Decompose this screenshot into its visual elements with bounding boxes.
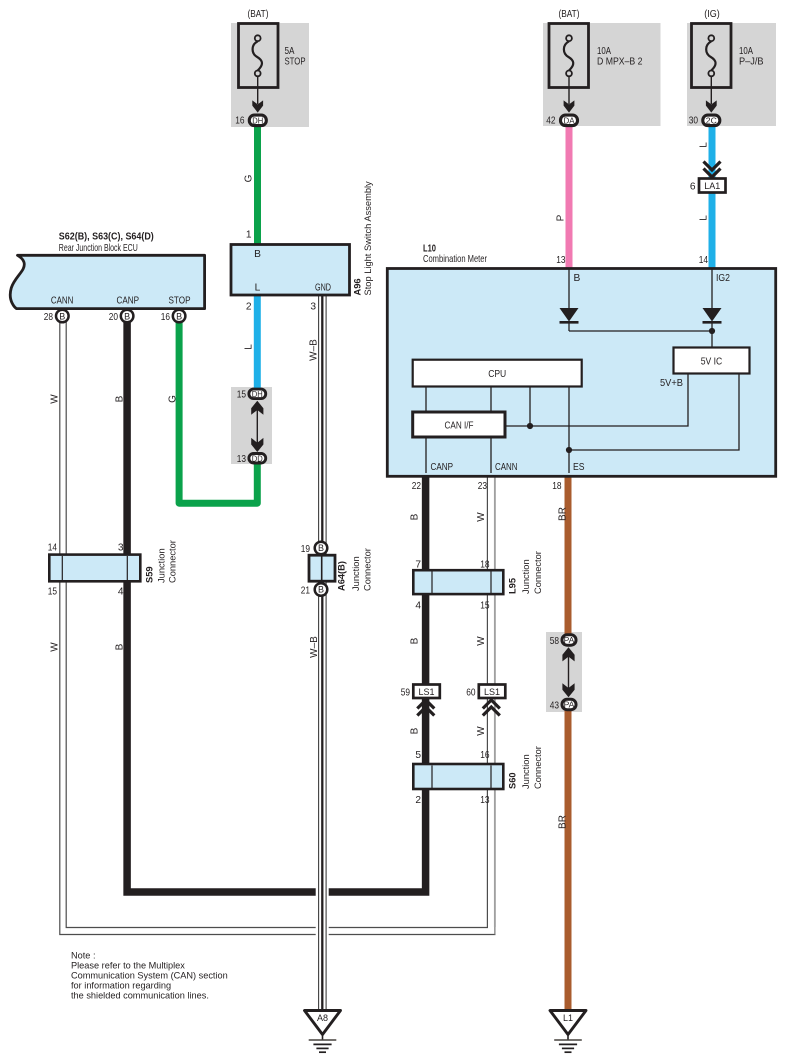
chevron marker above LA1: [704, 162, 721, 178]
ECU S62/S63/S64 Rear Junction Block ECU box: [10, 255, 204, 308]
svg-text:CANP: CANP: [431, 462, 454, 473]
chevron marker below 59 LS1: [417, 700, 434, 716]
lead from fuse F3 to connector 2C: [710, 77, 712, 105]
svg-text:Connector: Connector: [363, 548, 373, 591]
svg-text:28: 28: [44, 312, 54, 323]
svg-text:(BAT): (BAT): [248, 9, 269, 20]
svg-text:18: 18: [480, 560, 490, 571]
svg-text:Stop Light Switch Assembly: Stop Light Switch Assembly: [363, 181, 373, 296]
svg-text:43: 43: [550, 701, 560, 712]
svg-text:21: 21: [301, 586, 311, 597]
svg-text:13: 13: [556, 255, 566, 266]
svg-text:DH: DH: [252, 116, 263, 125]
svg-text:5V+B: 5V+B: [660, 378, 683, 389]
wire CAN I/F to CANN pin 23: [490, 437, 492, 473]
svg-text:(IG): (IG): [704, 9, 720, 20]
wire B CANP: ECU pin 20 down, across, up to meter pin 22: [127, 318, 426, 892]
fuse F1 5A STOP body: [239, 24, 279, 88]
svg-text:LA1: LA1: [704, 181, 720, 191]
wire W-B from A96 GND pin 3 to ground A8: left edge: [318, 294, 320, 1010]
svg-text:P: P: [556, 214, 567, 221]
svg-text:13: 13: [237, 454, 247, 465]
wire G from ECU STOP pin 16 down, right, up to DD: [179, 318, 257, 503]
svg-text:Connector: Connector: [168, 540, 178, 583]
svg-text:1: 1: [246, 230, 252, 241]
svg-text:30: 30: [689, 116, 699, 127]
svg-text:B: B: [410, 513, 421, 520]
svg-text:10A: 10A: [739, 46, 753, 57]
svg-text:Note :: Note :: [71, 951, 96, 961]
svg-text:D MPX–B 2: D MPX–B 2: [597, 56, 643, 67]
svg-text:14: 14: [48, 543, 58, 554]
fuse F2 element: [566, 35, 572, 41]
svg-text:5V IC: 5V IC: [701, 356, 723, 367]
gray panel of in-line connector PA/PA: [546, 632, 582, 712]
svg-text:DA: DA: [564, 116, 576, 125]
svg-text:W: W: [476, 512, 487, 522]
svg-text:20: 20: [109, 312, 119, 323]
wire W-B black stripe: [321, 294, 323, 1010]
chevron marker below 60 LS1: [483, 700, 500, 716]
svg-text:DD: DD: [252, 455, 263, 464]
svg-text:14: 14: [699, 255, 709, 266]
ground L1 triangle: [550, 1011, 586, 1035]
gray panel of STOP fuse block: [231, 23, 309, 127]
svg-text:2C: 2C: [706, 116, 717, 125]
svg-text:CANN: CANN: [495, 462, 518, 473]
shield wire W outer run: ECU pin 28 down, across bottom, up right side: [60, 320, 495, 935]
L10 Combination Meter box: [387, 269, 775, 477]
junction connector A64(B) box: [309, 555, 335, 581]
svg-text:DH: DH: [252, 390, 263, 399]
svg-text:P–J/B: P–J/B: [739, 56, 764, 67]
svg-text:Connector: Connector: [533, 746, 543, 789]
junction connector S60 box: [413, 764, 503, 789]
svg-text:W–B: W–B: [309, 339, 320, 361]
connector 15 DH oval: [249, 389, 266, 399]
fuse F3 10A P-J/B body: [692, 24, 732, 88]
svg-text:S62(B), S63(C), S64(D): S62(B), S63(C), S64(D): [59, 232, 154, 243]
gray panel of P-J/B fuse block: [687, 23, 776, 126]
svg-text:GND: GND: [315, 283, 331, 294]
svg-text:Communication System (CAN) sec: Communication System (CAN) section: [71, 971, 228, 981]
svg-text:B: B: [410, 637, 421, 644]
connector 59 LS1 box: [413, 685, 440, 699]
svg-text:BR: BR: [558, 815, 569, 829]
svg-text:7: 7: [415, 560, 421, 571]
svg-text:CAN I/F: CAN I/F: [445, 420, 474, 431]
wire CPU to CAN I/F leg 2: [490, 387, 492, 413]
junction connector A64(B) pin 21 B terminal: [315, 583, 328, 596]
wire BR from connector PA to ground L1: [565, 709, 572, 1010]
svg-text:LS1: LS1: [418, 687, 434, 697]
connector 43 PA oval: [562, 699, 576, 709]
svg-text:IG2: IG2: [716, 273, 730, 284]
wire CPU leg 4 to ES: [568, 387, 570, 474]
wire P from fuse DA to meter pin 13: [566, 124, 573, 269]
connector 6 LA1 box: [699, 179, 726, 193]
svg-text:W: W: [476, 726, 487, 736]
svg-text:S60: S60: [508, 772, 518, 789]
shield wire W right pale inner edge: [494, 476, 496, 927]
svg-text:CPU: CPU: [488, 369, 506, 380]
diode D1 (B feed): [560, 308, 579, 322]
wire ES node to 5V IC right pin: [569, 374, 739, 451]
lead from fuse F1 to connector DH: [257, 77, 259, 105]
svg-text:L: L: [244, 344, 255, 350]
svg-text:60: 60: [466, 688, 476, 699]
svg-text:59: 59: [401, 688, 411, 699]
fuse F1 element: [255, 35, 261, 41]
gray panel of in-line connector DH/DD: [231, 387, 272, 464]
svg-text:BR: BR: [558, 507, 569, 521]
svg-text:B: B: [124, 311, 130, 321]
svg-text:2: 2: [415, 795, 421, 806]
svg-text:2: 2: [246, 302, 252, 313]
svg-text:CANP: CANP: [117, 296, 140, 307]
svg-text:Junction: Junction: [521, 559, 531, 594]
ECU pin 20 B terminal: [121, 310, 134, 323]
svg-text:5: 5: [415, 750, 421, 761]
svg-text:6: 6: [690, 182, 696, 193]
meter internal lead from pin 14 to diode: [711, 269, 713, 309]
svg-text:G: G: [244, 174, 255, 182]
svg-text:CANN: CANN: [51, 296, 74, 307]
svg-text:Junction: Junction: [521, 754, 531, 789]
fuse F3 element: [708, 35, 714, 41]
svg-text:ES: ES: [573, 462, 585, 473]
junction connector A64(B) pin 19 B terminal: [315, 542, 328, 555]
svg-text:19: 19: [301, 544, 311, 555]
svg-text:Please refer to the Multiplex: Please refer to the Multiplex: [71, 961, 185, 971]
svg-text:18: 18: [552, 481, 562, 492]
junction node on 5V+B line: [527, 423, 533, 429]
wire L from fuse 2C to connector LA1: [709, 124, 716, 180]
junction connector S59 box: [49, 555, 140, 582]
connector 60 LS1 box: [479, 685, 506, 699]
wire BR from meter ES pin 18 to connector PA: [565, 474, 572, 635]
connector 13 DD oval: [249, 454, 266, 464]
svg-text:PA: PA: [564, 635, 575, 645]
wire W-B right edge: [325, 294, 327, 1010]
svg-text:(BAT): (BAT): [559, 9, 580, 20]
svg-text:15: 15: [237, 390, 247, 401]
svg-text:S59: S59: [145, 566, 155, 583]
svg-text:L95: L95: [508, 578, 518, 594]
svg-text:the shielded communication lin: the shielded communication lines.: [71, 991, 209, 1001]
wire CPU leg 3 to 5V+B line: [529, 387, 531, 427]
svg-text:W–B: W–B: [309, 636, 320, 658]
connector 42 DA oval: [561, 115, 578, 126]
in-line connector arrows DH-DD: [256, 406, 258, 447]
svg-text:B: B: [59, 311, 65, 321]
white halo where W-B wire crosses B wire and shield: [316, 884, 329, 940]
svg-text:58: 58: [550, 636, 560, 647]
wire CAN I/F to 5V IC (5V+B): [505, 374, 688, 427]
svg-text:B: B: [574, 273, 581, 284]
svg-text:A64(B): A64(B): [337, 561, 347, 591]
svg-text:16: 16: [161, 312, 171, 323]
svg-text:4: 4: [118, 587, 124, 598]
svg-text:L: L: [255, 283, 261, 294]
svg-text:13: 13: [480, 795, 490, 806]
junction connector L95 box: [413, 570, 503, 594]
svg-text:42: 42: [546, 116, 556, 127]
svg-text:for information regarding: for information regarding: [71, 981, 171, 991]
svg-text:4: 4: [415, 601, 421, 612]
svg-text:W: W: [50, 642, 61, 652]
gray panel of D MPX-B 2 fuse block: [543, 23, 661, 126]
svg-text:B: B: [115, 643, 126, 650]
svg-text:15: 15: [48, 587, 58, 598]
wire G from fuse DH to A96 pin 1: [254, 124, 261, 246]
svg-text:STOP: STOP: [169, 296, 191, 307]
diode D2 (IG2 feed): [703, 308, 722, 322]
ECU pin 28 B terminal: [56, 310, 69, 323]
svg-text:B: B: [115, 395, 126, 402]
ECU pin 16 B terminal: [173, 310, 186, 323]
connector 16 DH oval: [249, 115, 266, 126]
CAN I/F box U3: [413, 412, 505, 437]
in-line connector arrows PA-PA: [568, 652, 570, 692]
wire L from connector LA1 to meter pin 14: [709, 191, 716, 269]
svg-text:Connector: Connector: [533, 551, 543, 594]
fuse F2 10A D MPX-B 2 body: [549, 24, 589, 88]
svg-text:16: 16: [480, 750, 490, 761]
svg-text:23: 23: [478, 481, 488, 492]
svg-text:L10: L10: [423, 244, 436, 255]
svg-text:Combination Meter: Combination Meter: [423, 254, 487, 265]
svg-text:5A: 5A: [285, 46, 295, 57]
junction node on ES line: [566, 447, 572, 453]
svg-text:22: 22: [412, 481, 422, 492]
lead from fuse F2 to connector DA: [568, 77, 570, 105]
CPU box U1: [413, 360, 582, 387]
wire CAN I/F to CANP pin 22: [425, 437, 427, 473]
connector 30 2C oval: [703, 115, 720, 126]
svg-text:Junction: Junction: [351, 556, 361, 591]
svg-text:W: W: [476, 636, 487, 646]
svg-text:L: L: [699, 142, 710, 148]
A96 Stop Light Switch Assembly box: [231, 245, 350, 296]
svg-text:16: 16: [235, 116, 245, 127]
svg-text:B: B: [318, 543, 324, 553]
svg-text:Rear Junction Block ECU: Rear Junction Block ECU: [59, 243, 138, 254]
wire joining diode outputs: [569, 330, 712, 332]
connector 58 PA oval: [562, 635, 576, 645]
svg-text:3: 3: [310, 302, 316, 313]
svg-text:Junction: Junction: [157, 548, 167, 583]
svg-text:LS1: LS1: [484, 687, 500, 697]
svg-text:B: B: [410, 727, 421, 734]
junction node at diode outputs: [709, 328, 715, 334]
svg-text:W: W: [50, 394, 61, 404]
ground A8 triangle: [305, 1011, 341, 1035]
svg-text:B: B: [176, 311, 182, 321]
svg-text:A8: A8: [317, 1013, 328, 1023]
svg-text:STOP: STOP: [285, 56, 306, 67]
wire L from A96 pin 2 to connector DH: [254, 294, 261, 390]
svg-text:A96: A96: [353, 278, 363, 295]
svg-text:3: 3: [118, 543, 124, 554]
svg-text:PA: PA: [564, 700, 575, 710]
svg-text:B: B: [318, 585, 324, 595]
svg-text:15: 15: [480, 601, 490, 612]
wire CPU to CAN I/F leg 1: [425, 387, 427, 413]
5V IC box U2: [674, 348, 750, 374]
svg-text:L1: L1: [563, 1013, 573, 1023]
svg-text:G: G: [168, 395, 179, 403]
meter internal lead from pin 13 to diode: [568, 269, 570, 309]
svg-text:L: L: [699, 215, 710, 221]
shield wire W inner run: [66, 320, 487, 928]
svg-text:B: B: [254, 249, 261, 260]
svg-text:10A: 10A: [597, 46, 611, 57]
